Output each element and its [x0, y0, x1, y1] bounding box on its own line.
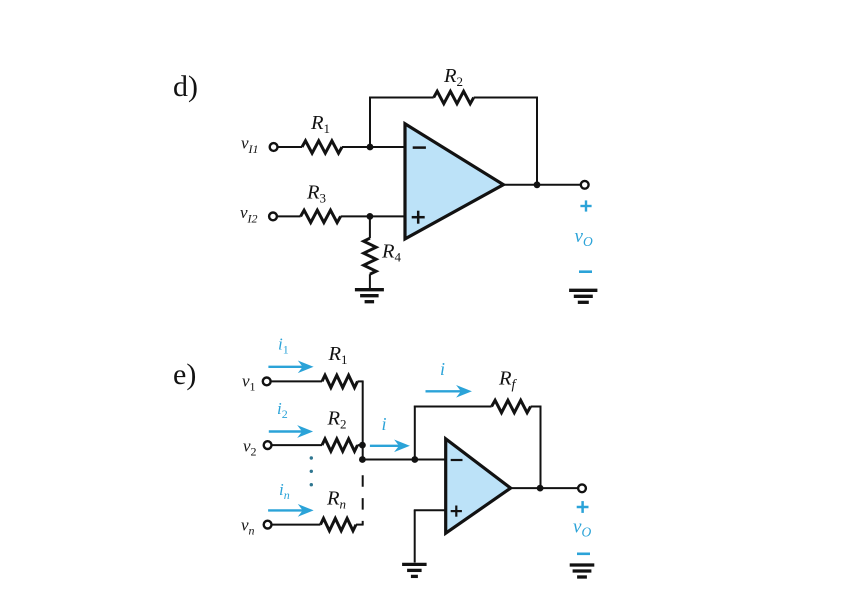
ground below output (d) — [569, 289, 597, 292]
current arrow in — [268, 509, 305, 511]
wire U1 output — [503, 184, 581, 186]
current arrow i1 — [268, 366, 305, 368]
terminal vO (d) — [581, 181, 589, 189]
ellipsis dots more inputs — [310, 456, 313, 459]
current arrow i summing — [370, 445, 402, 447]
op-amp U2 — [446, 439, 511, 533]
terminal vI2 — [269, 213, 277, 221]
svg-text:i: i — [382, 414, 387, 434]
wire plus input down to ground — [414, 510, 416, 562]
svg-text:d): d) — [173, 70, 198, 103]
resistor R4 — [364, 238, 376, 274]
wire feedback down to output — [540, 406, 542, 489]
terminal vO (e) — [578, 484, 586, 492]
wire feedback top right — [474, 97, 538, 99]
wire junction up to feedback — [369, 97, 371, 147]
wire bus vertical dashed to Rn — [362, 464, 364, 525]
wire v2 to R2 — [271, 444, 322, 446]
node R2 at bus — [359, 442, 366, 449]
op-amp U1 — [405, 124, 503, 239]
resistor R1 (e) — [322, 375, 358, 387]
resistor R3 — [301, 210, 341, 222]
minus sign output (d) — [579, 270, 592, 273]
plus sign output (d) — [580, 205, 591, 207]
resistor R1 — [302, 141, 342, 153]
wire R1 to inverting input — [342, 146, 405, 148]
ground below output (e) — [570, 563, 595, 566]
wire Rf right — [531, 406, 542, 408]
wire junction down to R4 — [369, 216, 371, 238]
U2 plus marker — [451, 510, 462, 512]
U1 minus marker — [413, 146, 426, 149]
U1 plus marker — [412, 216, 425, 219]
wire R3 to noninverting input — [341, 215, 405, 217]
wire vn to Rn — [271, 524, 320, 526]
node feedback takeoff — [411, 456, 418, 463]
wire bus vertical solid — [362, 381, 364, 459]
minus sign output (e) — [577, 552, 590, 555]
resistor R2 (e) — [322, 439, 358, 451]
resistor R2 — [434, 91, 474, 103]
current arrow i2 — [269, 430, 305, 432]
wire summing node to inverting input — [363, 459, 446, 461]
wire v1 to R1 — [271, 380, 323, 382]
wire vI1 to R1 — [277, 146, 302, 148]
node output / feedback (e) — [537, 485, 544, 492]
terminal vn — [264, 521, 272, 529]
node at R3 / R4 junction — [367, 213, 374, 220]
wire vI2 to R3 — [277, 215, 301, 217]
svg-text:e): e) — [173, 358, 196, 391]
plus sign output (e) — [577, 506, 589, 509]
wire feedback top to Rf — [414, 406, 492, 408]
wire R2 to bus — [358, 444, 364, 446]
ground at U2 plus input — [402, 563, 427, 566]
terminal v2 — [264, 441, 272, 449]
resistor Rf — [492, 400, 531, 412]
node summing junction — [359, 456, 366, 463]
node at output / feedback — [534, 181, 541, 188]
wire Rn to bus corner — [356, 524, 364, 526]
wire R1 to bus corner — [358, 380, 364, 382]
current arrow i feedback — [426, 390, 464, 392]
svg-text:i: i — [440, 359, 445, 379]
wire U2 output — [511, 487, 579, 489]
terminal v1 — [263, 378, 271, 386]
node at R1 / feedback junction — [367, 144, 374, 151]
terminal vI1 — [270, 143, 278, 151]
wire feedback down to output — [536, 97, 538, 185]
U2 minus marker — [451, 459, 463, 461]
resistor Rn — [321, 518, 357, 530]
ground below R4 — [355, 288, 384, 291]
wire R4 to ground — [369, 274, 371, 288]
wire U2 plus input left — [414, 509, 446, 511]
wire feedback up — [414, 406, 416, 460]
wire feedback top left — [369, 97, 434, 99]
